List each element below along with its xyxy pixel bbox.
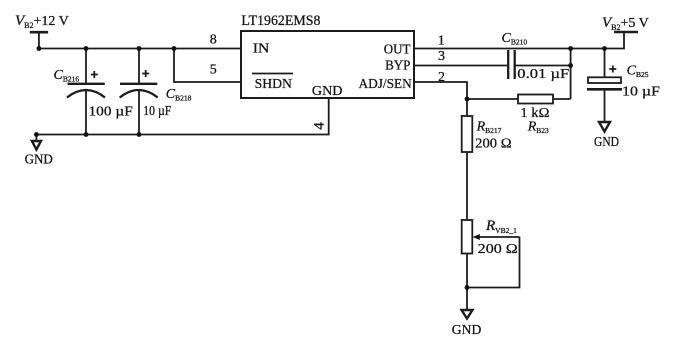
- svg-text:RB217: RB217: [476, 120, 502, 136]
- svg-text:CB25: CB25: [627, 64, 649, 80]
- svg-text:200 Ω: 200 Ω: [478, 242, 518, 257]
- svg-text:BYP: BYP: [385, 59, 410, 74]
- svg-text:VB2+12 V: VB2+12 V: [15, 13, 69, 30]
- svg-text:RVB2_1: RVB2_1: [485, 218, 517, 235]
- svg-text:1: 1: [438, 34, 445, 49]
- svg-text:10 µF: 10 µF: [143, 104, 171, 119]
- svg-text:LT1962EMS8: LT1962EMS8: [241, 13, 320, 29]
- svg-text:100 µF: 100 µF: [89, 104, 134, 119]
- svg-text:VB2+5 V: VB2+5 V: [602, 15, 649, 32]
- svg-text:3: 3: [438, 49, 445, 64]
- svg-text:4: 4: [311, 122, 327, 130]
- svg-text:GND: GND: [452, 323, 482, 338]
- svg-text:1 kΩ: 1 kΩ: [520, 106, 549, 121]
- svg-text:200 Ω: 200 Ω: [475, 137, 511, 152]
- svg-text:5: 5: [210, 63, 217, 78]
- svg-text:CB210: CB210: [502, 31, 528, 47]
- svg-text:CB216: CB216: [54, 68, 80, 84]
- svg-text:GND: GND: [594, 135, 619, 150]
- svg-text:0.01 µF: 0.01 µF: [517, 67, 569, 82]
- svg-text:10 µF: 10 µF: [622, 85, 660, 100]
- svg-text:GND: GND: [25, 153, 53, 168]
- svg-text:RB23: RB23: [527, 120, 549, 136]
- svg-text:IN: IN: [253, 41, 269, 56]
- svg-text:GND: GND: [312, 84, 343, 99]
- svg-text:ADJ/SEN: ADJ/SEN: [359, 77, 412, 92]
- svg-text:SHDN: SHDN: [255, 77, 292, 92]
- svg-text:8: 8: [210, 33, 217, 48]
- svg-text:2: 2: [438, 70, 445, 85]
- svg-text:OUT: OUT: [384, 42, 411, 57]
- svg-text:CB218: CB218: [166, 87, 192, 103]
